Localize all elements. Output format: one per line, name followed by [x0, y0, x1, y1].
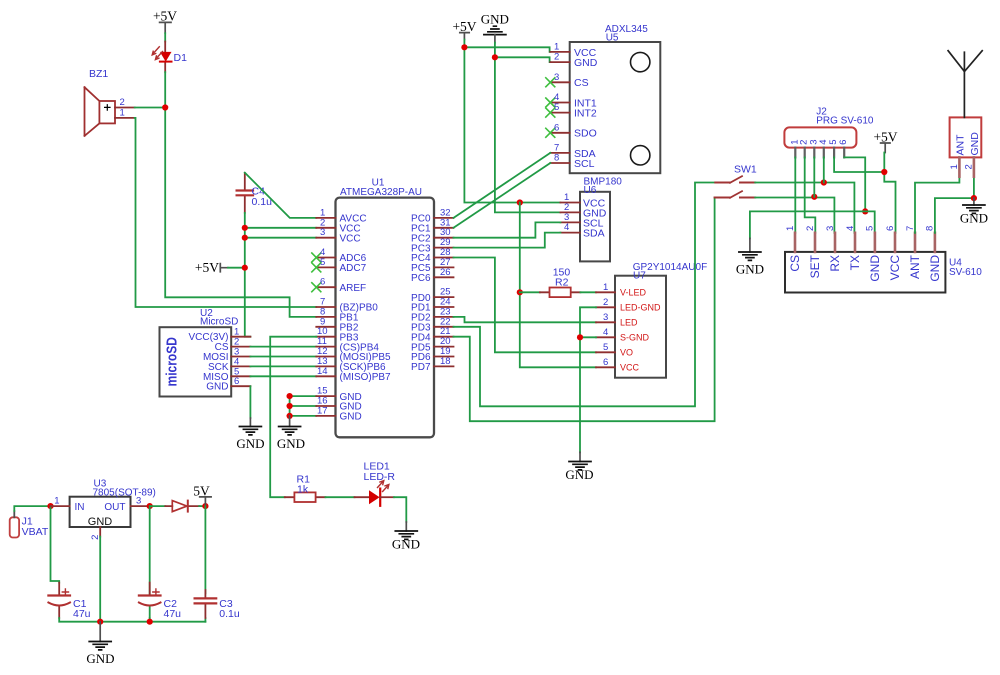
- wire U6 SDA to PC3: [454, 233, 561, 248]
- svg-text:6: 6: [603, 357, 608, 368]
- wire J2.3 down: [813, 157, 815, 196]
- wire SW1 bottom to RX net: [755, 198, 834, 233]
- svg-text:3: 3: [603, 312, 608, 323]
- IC U6 BMP180: [560, 177, 622, 262]
- capacitor C4: [237, 173, 272, 213]
- svg-text:5: 5: [554, 102, 559, 113]
- wire VCC row pin2: [245, 227, 316, 229]
- wire BZ1 pin1 to (BZ)PB0: [135, 118, 317, 307]
- svg-text:RX: RX: [828, 255, 842, 272]
- wire U7 LED-GND down: [580, 307, 596, 452]
- svg-text:ANT: ANT: [955, 134, 967, 156]
- svg-text:SV-610: SV-610: [949, 267, 982, 278]
- svg-text:microSD: microSD: [165, 337, 181, 387]
- ground symbol U7: [565, 452, 593, 482]
- svg-text:2: 2: [120, 97, 125, 108]
- capacitor C2 47u polarized: [139, 506, 181, 620]
- svg-text:VBAT: VBAT: [22, 526, 49, 538]
- wire +5V down to U4 VCC: [884, 153, 895, 233]
- svg-text:1k: 1k: [297, 484, 309, 496]
- svg-text:GND: GND: [277, 436, 305, 451]
- svg-text:1: 1: [54, 496, 59, 507]
- svg-text:4: 4: [603, 327, 608, 338]
- junction GND15: [287, 393, 293, 399]
- svg-text:LED-R: LED-R: [364, 471, 396, 483]
- svg-text:3: 3: [136, 496, 141, 507]
- svg-text:INT2: INT2: [574, 108, 597, 120]
- wire GND rail down to U6 GND: [495, 43, 561, 213]
- junction +5V top: [461, 44, 467, 50]
- junction GND rail/J2.6: [862, 208, 868, 214]
- svg-text:CS: CS: [574, 77, 589, 89]
- antenna symbol: [948, 51, 982, 118]
- junction S-GND: [577, 334, 583, 340]
- svg-text:GND: GND: [928, 255, 942, 282]
- svg-text:SCL: SCL: [574, 158, 595, 170]
- svg-text:+5V: +5V: [195, 260, 219, 275]
- svg-text:SDA: SDA: [583, 228, 605, 240]
- wire U4 ANT to antenna module: [915, 177, 959, 233]
- svg-text:ANT: ANT: [908, 254, 922, 279]
- svg-text:2: 2: [554, 52, 559, 63]
- buzzer BZ1: [85, 68, 135, 136]
- wire C4 bottom down to U2 VCC(3V): [245, 213, 251, 337]
- svg-text:LED-GND: LED-GND: [620, 302, 661, 312]
- junction U3 OUT / C2: [147, 503, 153, 509]
- svg-text:SDO: SDO: [574, 128, 597, 140]
- wire U4 GND8 to antenna GND: [935, 198, 974, 233]
- +5V supply symbol (top-left, above D1): [153, 9, 177, 34]
- no-connect X marks ADC6 ADC7 AREF: [312, 253, 321, 292]
- svg-text:4: 4: [564, 222, 569, 233]
- wire GND branch to U5 GND: [495, 57, 550, 62]
- capacitor C3 0.1u: [195, 506, 240, 622]
- svg-text:17: 17: [317, 405, 328, 416]
- svg-text:1: 1: [785, 226, 796, 231]
- junction rail/C2: [147, 619, 153, 625]
- svg-text:GND: GND: [206, 382, 228, 393]
- antenna connector box ANT/GND: [949, 117, 981, 176]
- svg-text:TX: TX: [848, 255, 862, 270]
- svg-text:26: 26: [440, 267, 451, 278]
- svg-text:R2: R2: [555, 277, 569, 289]
- svg-text:U7: U7: [633, 271, 646, 282]
- 5V supply symbol: [193, 483, 211, 506]
- svg-text:MicroSD: MicroSD: [200, 317, 238, 328]
- junction 5V/C3: [202, 503, 208, 509]
- no-connect X marks CS INT1 INT2 SDO: [546, 78, 555, 138]
- svg-text:3: 3: [554, 72, 559, 83]
- svg-text:(MISO)PB7: (MISO)PB7: [340, 372, 392, 383]
- svg-text:GND: GND: [88, 516, 113, 528]
- switch SW1: [715, 164, 757, 198]
- wire OUT to diode: [150, 505, 165, 507]
- ground symbol top (inverted): [481, 12, 509, 43]
- svg-text:5: 5: [603, 342, 608, 353]
- wire U6 SCL to PC2: [454, 222, 561, 237]
- wire R1 to LED1: [325, 496, 354, 498]
- junction +5V/VCC vertical: [242, 265, 248, 271]
- svg-text:GND: GND: [960, 211, 988, 226]
- svg-text:+5V: +5V: [153, 9, 177, 24]
- resistor R2 150: [540, 266, 581, 297]
- wire PD3 to SW1 top: [454, 183, 716, 407]
- ground symbol U2: [236, 418, 264, 451]
- svg-text:7805(SOT-89): 7805(SOT-89): [93, 487, 156, 498]
- svg-text:5: 5: [320, 257, 325, 268]
- wire PC4 to U7 VO: [454, 258, 597, 353]
- svg-text:6: 6: [838, 140, 849, 145]
- junction J2 pin3: [811, 194, 817, 200]
- connector J2 PRG SV-610: [784, 107, 873, 158]
- svg-text:GND: GND: [392, 537, 420, 552]
- svg-text:AREF: AREF: [340, 283, 367, 294]
- svg-text:47u: 47u: [73, 608, 91, 620]
- junction R2: [517, 289, 523, 295]
- wire U2 SCK to (SCK)PB6: [250, 365, 316, 367]
- wire J2.4 down: [823, 157, 825, 182]
- svg-text:2: 2: [90, 535, 101, 540]
- svg-text:5: 5: [865, 226, 876, 231]
- ground symbol SW: [736, 238, 764, 276]
- svg-text:2: 2: [805, 226, 816, 231]
- junction J1/C1: [47, 503, 53, 509]
- wire U5 SCL diagonal to PC1: [454, 163, 551, 228]
- svg-text:V-LED: V-LED: [620, 287, 647, 297]
- svg-text:VCC: VCC: [620, 362, 640, 372]
- wire junction down to C1: [51, 506, 60, 582]
- wire U7 S-GND: [580, 336, 596, 338]
- svg-text:0.1u: 0.1u: [219, 608, 240, 620]
- IC U1 ATMEGA328P-AU: [312, 178, 454, 438]
- wire PB3 to R1: [270, 337, 316, 498]
- svg-text:U5: U5: [606, 32, 619, 43]
- svg-text:GND: GND: [565, 467, 593, 482]
- connector J1 VBAT: [10, 511, 49, 538]
- junction GND top: [492, 54, 498, 60]
- junction +5V/J2.5: [881, 169, 887, 175]
- junction VCC pin3: [242, 235, 248, 241]
- ground symbol U1: [277, 416, 305, 451]
- +5V supply symbol (top middle): [452, 19, 476, 40]
- wire PD2 to U7 LED: [454, 317, 597, 322]
- junction +5V rail / R2 column: [517, 199, 523, 205]
- svg-text:6: 6: [320, 277, 325, 288]
- svg-text:S-GND: S-GND: [620, 332, 650, 342]
- regulator U3 7805(SOT-89): [50, 479, 156, 540]
- ground symbol power: [86, 622, 114, 666]
- wire +5V rail down to U6 VCC: [464, 40, 560, 203]
- svg-text:8: 8: [554, 153, 559, 164]
- wire SW1 top to TX net: [755, 183, 854, 233]
- junction VCC pin2: [242, 225, 248, 231]
- wire J2.2 to U4 SET: [805, 157, 816, 232]
- wire J2.6 to GND rail: [844, 157, 865, 211]
- wire diode to 5V node: [199, 505, 205, 507]
- wire U2 CS to (CS)PB4: [250, 346, 316, 348]
- svg-text:6: 6: [554, 122, 559, 133]
- svg-text:2: 2: [964, 164, 975, 169]
- module U4 SV-610: [785, 226, 982, 293]
- svg-text:GND: GND: [86, 651, 114, 666]
- +5V supply symbol (right): [873, 130, 897, 153]
- svg-text:6: 6: [885, 226, 896, 231]
- svg-text:1: 1: [949, 164, 960, 169]
- svg-text:VCC: VCC: [340, 233, 361, 244]
- svg-text:GND: GND: [236, 436, 264, 451]
- svg-text:6: 6: [234, 376, 239, 387]
- LED1 LED-R: [355, 461, 396, 506]
- svg-text:PD7: PD7: [411, 362, 431, 373]
- svg-text:GND: GND: [868, 255, 882, 282]
- junction rail/U3 GND: [97, 619, 103, 625]
- svg-text:1: 1: [603, 282, 608, 293]
- ground symbol antenna: [960, 198, 988, 225]
- diode D2: [165, 501, 199, 512]
- wire R2 to U7 V-LED: [580, 291, 596, 293]
- wire +5V column down to U7 VCC: [520, 203, 596, 368]
- svg-text:VCC: VCC: [888, 255, 902, 281]
- wire U1 GND pins 15-17 bus: [290, 396, 317, 416]
- svg-text:ATMEGA328P-AU: ATMEGA328P-AU: [340, 187, 422, 198]
- wire J2.1 to U4 CS: [794, 157, 796, 232]
- svg-text:SW1: SW1: [734, 164, 757, 176]
- wire U2 GND down: [249, 386, 251, 418]
- svg-text:GND: GND: [574, 57, 598, 69]
- wire +5V branch to U5 VCC: [464, 47, 550, 52]
- svg-text:LED: LED: [620, 317, 638, 327]
- IC U2 MicroSD: [160, 308, 251, 397]
- wire D1 cathode down to PB1 net: [165, 72, 316, 317]
- svg-text:3: 3: [825, 226, 836, 231]
- svg-text:PRG SV-610: PRG SV-610: [816, 116, 874, 127]
- svg-text:1: 1: [120, 107, 125, 118]
- junction GND16: [287, 403, 293, 409]
- junction BZ1/D1: [162, 104, 168, 110]
- bottom ground rail: [59, 618, 205, 622]
- junction J2 pin4: [821, 179, 827, 185]
- svg-text:IN: IN: [75, 502, 85, 513]
- svg-text:14: 14: [317, 366, 328, 377]
- wire PD4 to SW1 bottom: [454, 198, 715, 422]
- svg-text:OUT: OUT: [104, 502, 125, 513]
- svg-text:GND: GND: [736, 262, 764, 277]
- wire J1 to U3 IN: [14, 506, 50, 511]
- svg-text:GND: GND: [340, 412, 362, 423]
- wire +5V to VCC net: [228, 267, 245, 269]
- capacitor C1 47u polarized: [48, 583, 90, 621]
- svg-text:SET: SET: [808, 254, 822, 278]
- svg-text:4: 4: [845, 226, 856, 231]
- wire J2.5 to +5V: [834, 157, 884, 172]
- junction antenna GND: [971, 195, 977, 201]
- svg-text:CS: CS: [788, 255, 802, 272]
- junction GND17: [287, 413, 293, 419]
- svg-text:PC6: PC6: [411, 273, 431, 284]
- svg-text:ADC7: ADC7: [340, 263, 367, 274]
- svg-text:3: 3: [320, 227, 325, 238]
- svg-text:GND: GND: [481, 12, 509, 27]
- IC U5 ADXL345: [546, 24, 661, 173]
- diode D1 LED: [152, 42, 187, 73]
- wire LED1 cathode to GND: [394, 497, 406, 522]
- wire U5 SDA diagonal to PC0: [454, 153, 551, 218]
- wire VCC row pin3: [245, 237, 316, 239]
- resistor R1 1k: [285, 474, 326, 503]
- IC U7 GP2Y1014AU0F: [596, 262, 707, 378]
- wire junction to R2: [520, 291, 540, 293]
- wire GND rail: [750, 211, 875, 238]
- svg-text:VO: VO: [620, 347, 633, 357]
- wire U2 MISO to (MISO)PB7: [250, 375, 316, 377]
- svg-text:BZ1: BZ1: [89, 68, 108, 80]
- wire BZ1 pin2 to D1 net: [135, 107, 166, 109]
- wire U2 MOSI to (MOSI)PB5: [250, 356, 316, 358]
- svg-text:U6: U6: [584, 185, 597, 196]
- svg-text:2: 2: [603, 297, 608, 308]
- wire C4 top to AVCC: [245, 173, 316, 218]
- +5V supply symbol (left mid, rotated): [195, 260, 228, 275]
- wire U3 GND pin2 down: [99, 537, 101, 622]
- svg-text:D1: D1: [174, 52, 188, 64]
- svg-text:47u: 47u: [164, 608, 182, 620]
- wire +5V to D1 anode: [164, 33, 166, 41]
- ground symbol LED1: [392, 522, 420, 552]
- svg-text:18: 18: [440, 356, 451, 367]
- wire antenna pin2 down: [973, 177, 975, 198]
- svg-text:GND: GND: [969, 132, 981, 156]
